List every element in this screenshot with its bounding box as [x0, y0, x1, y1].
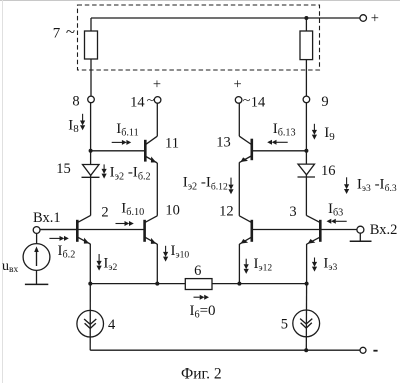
svg-text:9: 9: [321, 94, 328, 110]
svg-text:+: +: [234, 77, 242, 93]
svg-text:Вх.2: Вх.2: [370, 222, 398, 238]
svg-text:3: 3: [289, 204, 296, 220]
svg-text:+: +: [371, 10, 379, 26]
svg-text:~: ~: [243, 94, 251, 109]
svg-text:I6=0: I6=0: [190, 303, 216, 321]
svg-text:14: 14: [251, 94, 266, 110]
svg-text:2: 2: [101, 204, 108, 220]
svg-text:Вх.1: Вх.1: [33, 210, 61, 226]
svg-text:4: 4: [108, 317, 116, 333]
svg-text:11: 11: [165, 135, 179, 151]
svg-text:16: 16: [321, 163, 336, 179]
svg-text:6: 6: [194, 263, 201, 279]
svg-text:13: 13: [216, 135, 231, 151]
svg-text:15: 15: [56, 161, 71, 177]
svg-text:~: ~: [66, 22, 75, 41]
svg-text:14: 14: [130, 94, 145, 110]
svg-text:8: 8: [72, 93, 79, 109]
svg-text:5: 5: [281, 316, 288, 332]
svg-text:12: 12: [219, 203, 234, 219]
svg-text:10: 10: [165, 203, 180, 219]
svg-text:~: ~: [147, 94, 155, 109]
svg-text:Фиг. 2: Фиг. 2: [181, 365, 222, 382]
svg-text:+: +: [153, 77, 161, 93]
svg-text:7: 7: [53, 26, 61, 42]
